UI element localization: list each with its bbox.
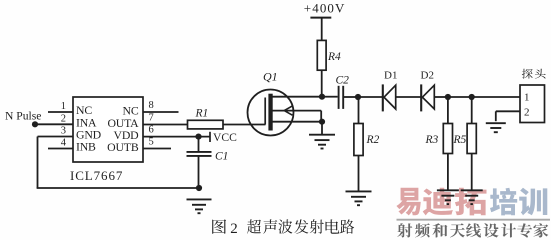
svg-text:R1: R1 xyxy=(195,108,209,120)
wire: R5 node to probe xyxy=(472,96,520,98)
svg-text:INB: INB xyxy=(76,140,96,154)
pin 7 (OUTA) wire to R1 xyxy=(143,112,188,124)
wire: R5 to ground xyxy=(471,154,473,191)
probe label 探头 xyxy=(522,69,546,79)
svg-text:2: 2 xyxy=(230,221,238,237)
resistor R5 xyxy=(467,124,476,154)
resistor R1 xyxy=(188,120,224,129)
node: ground bus / C1 junction xyxy=(196,185,202,191)
caption 图 2 超声波发射电路 xyxy=(212,219,354,237)
watermark text 射频和天线设计专家 xyxy=(397,223,548,237)
op-amp/driver IC U1 ICL7667 body xyxy=(73,97,143,162)
svg-text:OUTB: OUTB xyxy=(107,140,139,154)
wire: R2 to ground xyxy=(358,156,360,192)
node: R2 junction xyxy=(355,94,361,100)
transistor Q1 MOSFET xyxy=(248,90,323,136)
ground (Q1 source) xyxy=(309,135,335,149)
wire: drain node to C2 xyxy=(322,96,338,98)
svg-text:VCC: VCC xyxy=(213,131,237,144)
IC pin names left column xyxy=(76,103,102,154)
node: R5 junction xyxy=(469,94,475,100)
pin 6 (VDD) wire to VCC node xyxy=(143,124,210,136)
wire: rail to R4 xyxy=(321,18,323,41)
svg-text:R2: R2 xyxy=(366,134,380,146)
ground (R3) xyxy=(437,190,459,204)
svg-text:1: 1 xyxy=(61,101,66,112)
probe connector box 探头 xyxy=(520,85,545,123)
wire: bottom ground bus xyxy=(37,187,199,189)
watermark text 易迪拓培训 xyxy=(396,188,547,216)
svg-text:R5: R5 xyxy=(453,134,467,146)
svg-text:R3: R3 xyxy=(425,134,439,146)
wire: R1 to Q1 gate xyxy=(223,124,266,126)
node: Q1 source junction xyxy=(319,119,325,125)
capacitor C2 xyxy=(339,86,344,109)
svg-text:2: 2 xyxy=(61,113,66,124)
capacitor C1 xyxy=(187,152,212,156)
ground (probe) xyxy=(486,123,506,132)
svg-text:R4: R4 xyxy=(327,51,341,63)
resistor R4 xyxy=(317,40,326,70)
svg-text:7: 7 xyxy=(149,112,154,123)
ground (R5) xyxy=(461,190,483,204)
watermark divider rule xyxy=(397,219,551,221)
wire: VDD node down to C1 xyxy=(198,137,200,152)
svg-text:2: 2 xyxy=(524,106,530,118)
wire: node down to R2 xyxy=(358,97,360,124)
node: R3 junction xyxy=(445,94,451,100)
wire: D2 to R3 node xyxy=(434,96,448,98)
ground (main, below C1) xyxy=(187,199,212,213)
pin 3 (GND) wire xyxy=(38,126,74,137)
diode D2 xyxy=(421,84,434,111)
svg-text:N Pulse: N Pulse xyxy=(5,110,41,123)
pin 2 (INA) wire from input node xyxy=(35,113,73,124)
svg-text:D2: D2 xyxy=(421,70,434,82)
wire: pin3 GND down xyxy=(37,137,39,189)
svg-text:+400V: +400V xyxy=(304,1,346,16)
wire: R2 node to D1 xyxy=(358,96,383,98)
ground (R2) xyxy=(346,191,372,205)
pin 4 (INB) stub xyxy=(48,138,73,149)
node: drain junction xyxy=(319,94,325,100)
svg-text:ICL7667: ICL7667 xyxy=(70,168,123,183)
IC pin names right column xyxy=(107,104,139,155)
node: VDD junction xyxy=(195,134,201,140)
wire: probe pin2 to ground xyxy=(496,111,520,121)
wire: node down to R5 xyxy=(471,97,473,124)
svg-text:C1: C1 xyxy=(215,151,228,163)
node: input terminal dot xyxy=(32,121,38,127)
svg-text:6: 6 xyxy=(149,124,154,135)
wire: R4 to drain node xyxy=(321,70,323,97)
wire: R3 node to R5 node xyxy=(448,96,472,98)
wire: R3 to ground xyxy=(447,154,449,191)
svg-text:4: 4 xyxy=(61,138,67,149)
wire: node down to R3 xyxy=(447,97,449,124)
svg-text:8: 8 xyxy=(149,100,154,111)
svg-text:C2: C2 xyxy=(336,74,350,86)
VCC terminal tick xyxy=(209,132,211,142)
pin 1 (NC) stub xyxy=(48,101,73,112)
resistor R3 xyxy=(443,124,452,154)
pin 5 (OUTB) stub xyxy=(143,136,171,148)
svg-text:Q1: Q1 xyxy=(263,70,278,84)
pin 8 (NC) stub xyxy=(143,100,179,112)
svg-text:3: 3 xyxy=(61,126,66,137)
svg-text:5: 5 xyxy=(149,136,154,147)
power rail bar xyxy=(310,17,331,19)
resistor R2 xyxy=(354,124,363,156)
wire: D1 to D2 xyxy=(396,96,421,98)
svg-text:1: 1 xyxy=(524,91,530,103)
wire: C2 to R2 node xyxy=(343,96,358,98)
svg-text:D1: D1 xyxy=(384,70,397,82)
diode D1 xyxy=(383,84,396,111)
wire: C1 down to ground bus xyxy=(198,156,200,188)
wire: source to ground xyxy=(321,122,323,134)
